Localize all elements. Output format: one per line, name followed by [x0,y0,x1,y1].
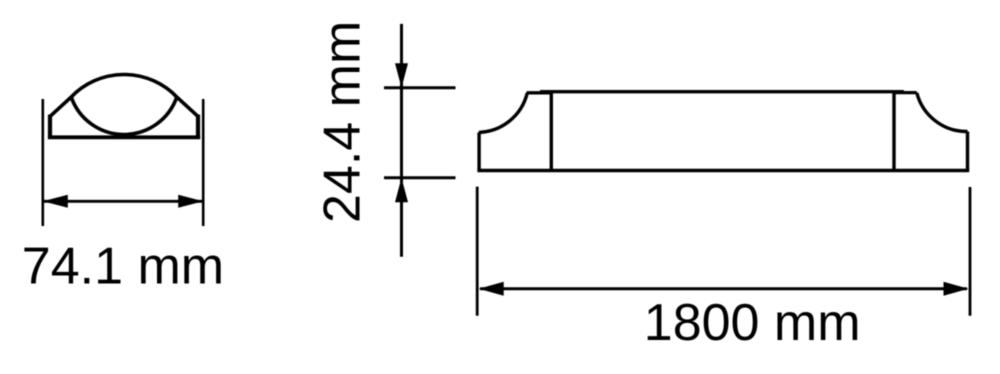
right extension line [202,99,205,226]
right arrowhead [944,282,969,296]
right cap top line [893,91,917,94]
right end cove curve [917,93,968,132]
left extension line [41,99,44,226]
right wall of lens base [196,115,200,138]
down arrowhead [395,63,408,88]
svg-text:24.4 mm: 24.4 mm [314,21,372,223]
length dimension 1800 mm [477,187,970,316]
svg-text:1800 mm: 1800 mm [644,294,861,352]
left arrowhead [479,282,504,296]
left extension line [476,187,479,316]
vertical dimension line [400,24,403,257]
inner concave curve (inner lens surface) [71,97,177,135]
svg-text:74.1 mm: 74.1 mm [22,238,224,296]
up arrowhead [395,178,408,203]
upper tick line [384,86,456,89]
left end cap divider [550,92,553,171]
bottom line of body [477,169,969,173]
left end edge [477,132,480,170]
left end cove curve [479,93,527,132]
base line of lens [48,135,200,139]
right extension line [969,187,972,316]
dimension line [44,200,202,203]
left wall of lens base [48,115,52,138]
width dimension 74.1 mm [43,99,203,226]
right end cap divider [892,92,895,171]
left cap top line [527,91,553,94]
lower tick line [384,176,456,179]
right arrowhead [178,195,203,208]
right end edge [966,132,969,171]
main body top line [540,90,904,93]
dimension line [480,287,967,290]
right view: luminaire side elevation [477,92,969,171]
dome arc (outer lens surface) [50,74,198,116]
height dimension 24.4 mm [384,24,456,257]
left view: lens cross-section profile [48,74,200,137]
left arrowhead [43,195,68,208]
